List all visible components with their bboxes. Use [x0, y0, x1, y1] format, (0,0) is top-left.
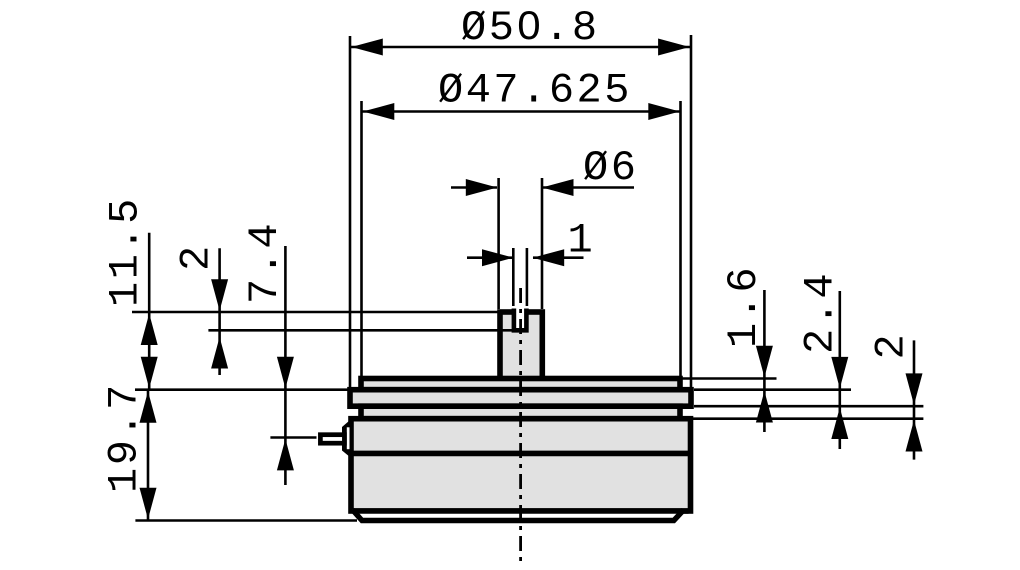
side pin boss: [342, 418, 353, 460]
dimension Ø50.8: dimension line: [351, 46, 690, 49]
extension line flange2 bottom right (2.4 / 2): [694, 405, 923, 408]
svg-text:Ø6: Ø6: [583, 144, 638, 192]
svg-text:11.5: 11.5: [102, 196, 150, 307]
svg-text:2.4: 2.4: [797, 271, 845, 354]
centerline: [519, 288, 522, 566]
extension line flange3 bottom right (2): [692, 417, 924, 420]
flange 3: [361, 406, 680, 419]
svg-text:2: 2: [173, 243, 221, 271]
svg-text:1.6: 1.6: [720, 265, 768, 348]
dimension Ø47.625: extension lines: [360, 101, 363, 379]
main body: [351, 419, 691, 511]
dimension Ø50.8: extension lines: [349, 36, 352, 390]
shaft slot: [514, 309, 527, 331]
extension line shaft top (11.5 / 2): [132, 311, 498, 314]
svg-text:7.4: 7.4: [241, 221, 289, 304]
dimension 1: dimension line + arrows: [467, 256, 513, 259]
dimension 7.4: dimension line + arrows: [284, 246, 287, 485]
svg-text:19.7: 19.7: [101, 382, 149, 493]
svg-text:Ø47.625: Ø47.625: [438, 67, 632, 115]
extension line slot bottom (2): [208, 329, 514, 332]
extension line flange1 top right (1.6): [682, 377, 777, 380]
dimension 1 (slot width): extension lines: [512, 248, 515, 306]
svg-text:1: 1: [568, 217, 596, 265]
extension line pin center (7.4): [270, 436, 316, 439]
extension line body bottom (19.7): [135, 519, 357, 522]
dimension 2 (slot depth): dimension line + arrows: [218, 248, 221, 375]
flange 1 (Ø47.625 top disc): [361, 379, 680, 390]
body bottom chamfer band: [353, 510, 684, 521]
dimension 19.7: dimension line + arrows: [147, 391, 150, 520]
shaft body: [500, 312, 542, 382]
dimension Ø6: dimension line + arrows: [451, 186, 497, 189]
dimension Ø47.625: dimension line: [362, 110, 680, 113]
svg-text:2: 2: [868, 332, 916, 360]
body mid seam line: [351, 451, 691, 457]
dimension Ø6: extension lines: [497, 178, 500, 309]
dimension 2.4: dimension line + arrows: [838, 291, 841, 449]
flange 2 (Ø50.8 disc): [350, 390, 691, 407]
dimension 1.6: dimension line + arrows: [763, 290, 766, 432]
extension line flange top left (11.5 / 7.4 / 19.7): [135, 388, 349, 391]
side adjustment pin: [320, 435, 344, 444]
extension line flange2 top right (1.6 / 2.4): [694, 388, 851, 391]
dimension 2 (right): dimension line + arrows: [913, 340, 916, 459]
dimension 11.5: dimension line + arrows: [148, 233, 151, 389]
